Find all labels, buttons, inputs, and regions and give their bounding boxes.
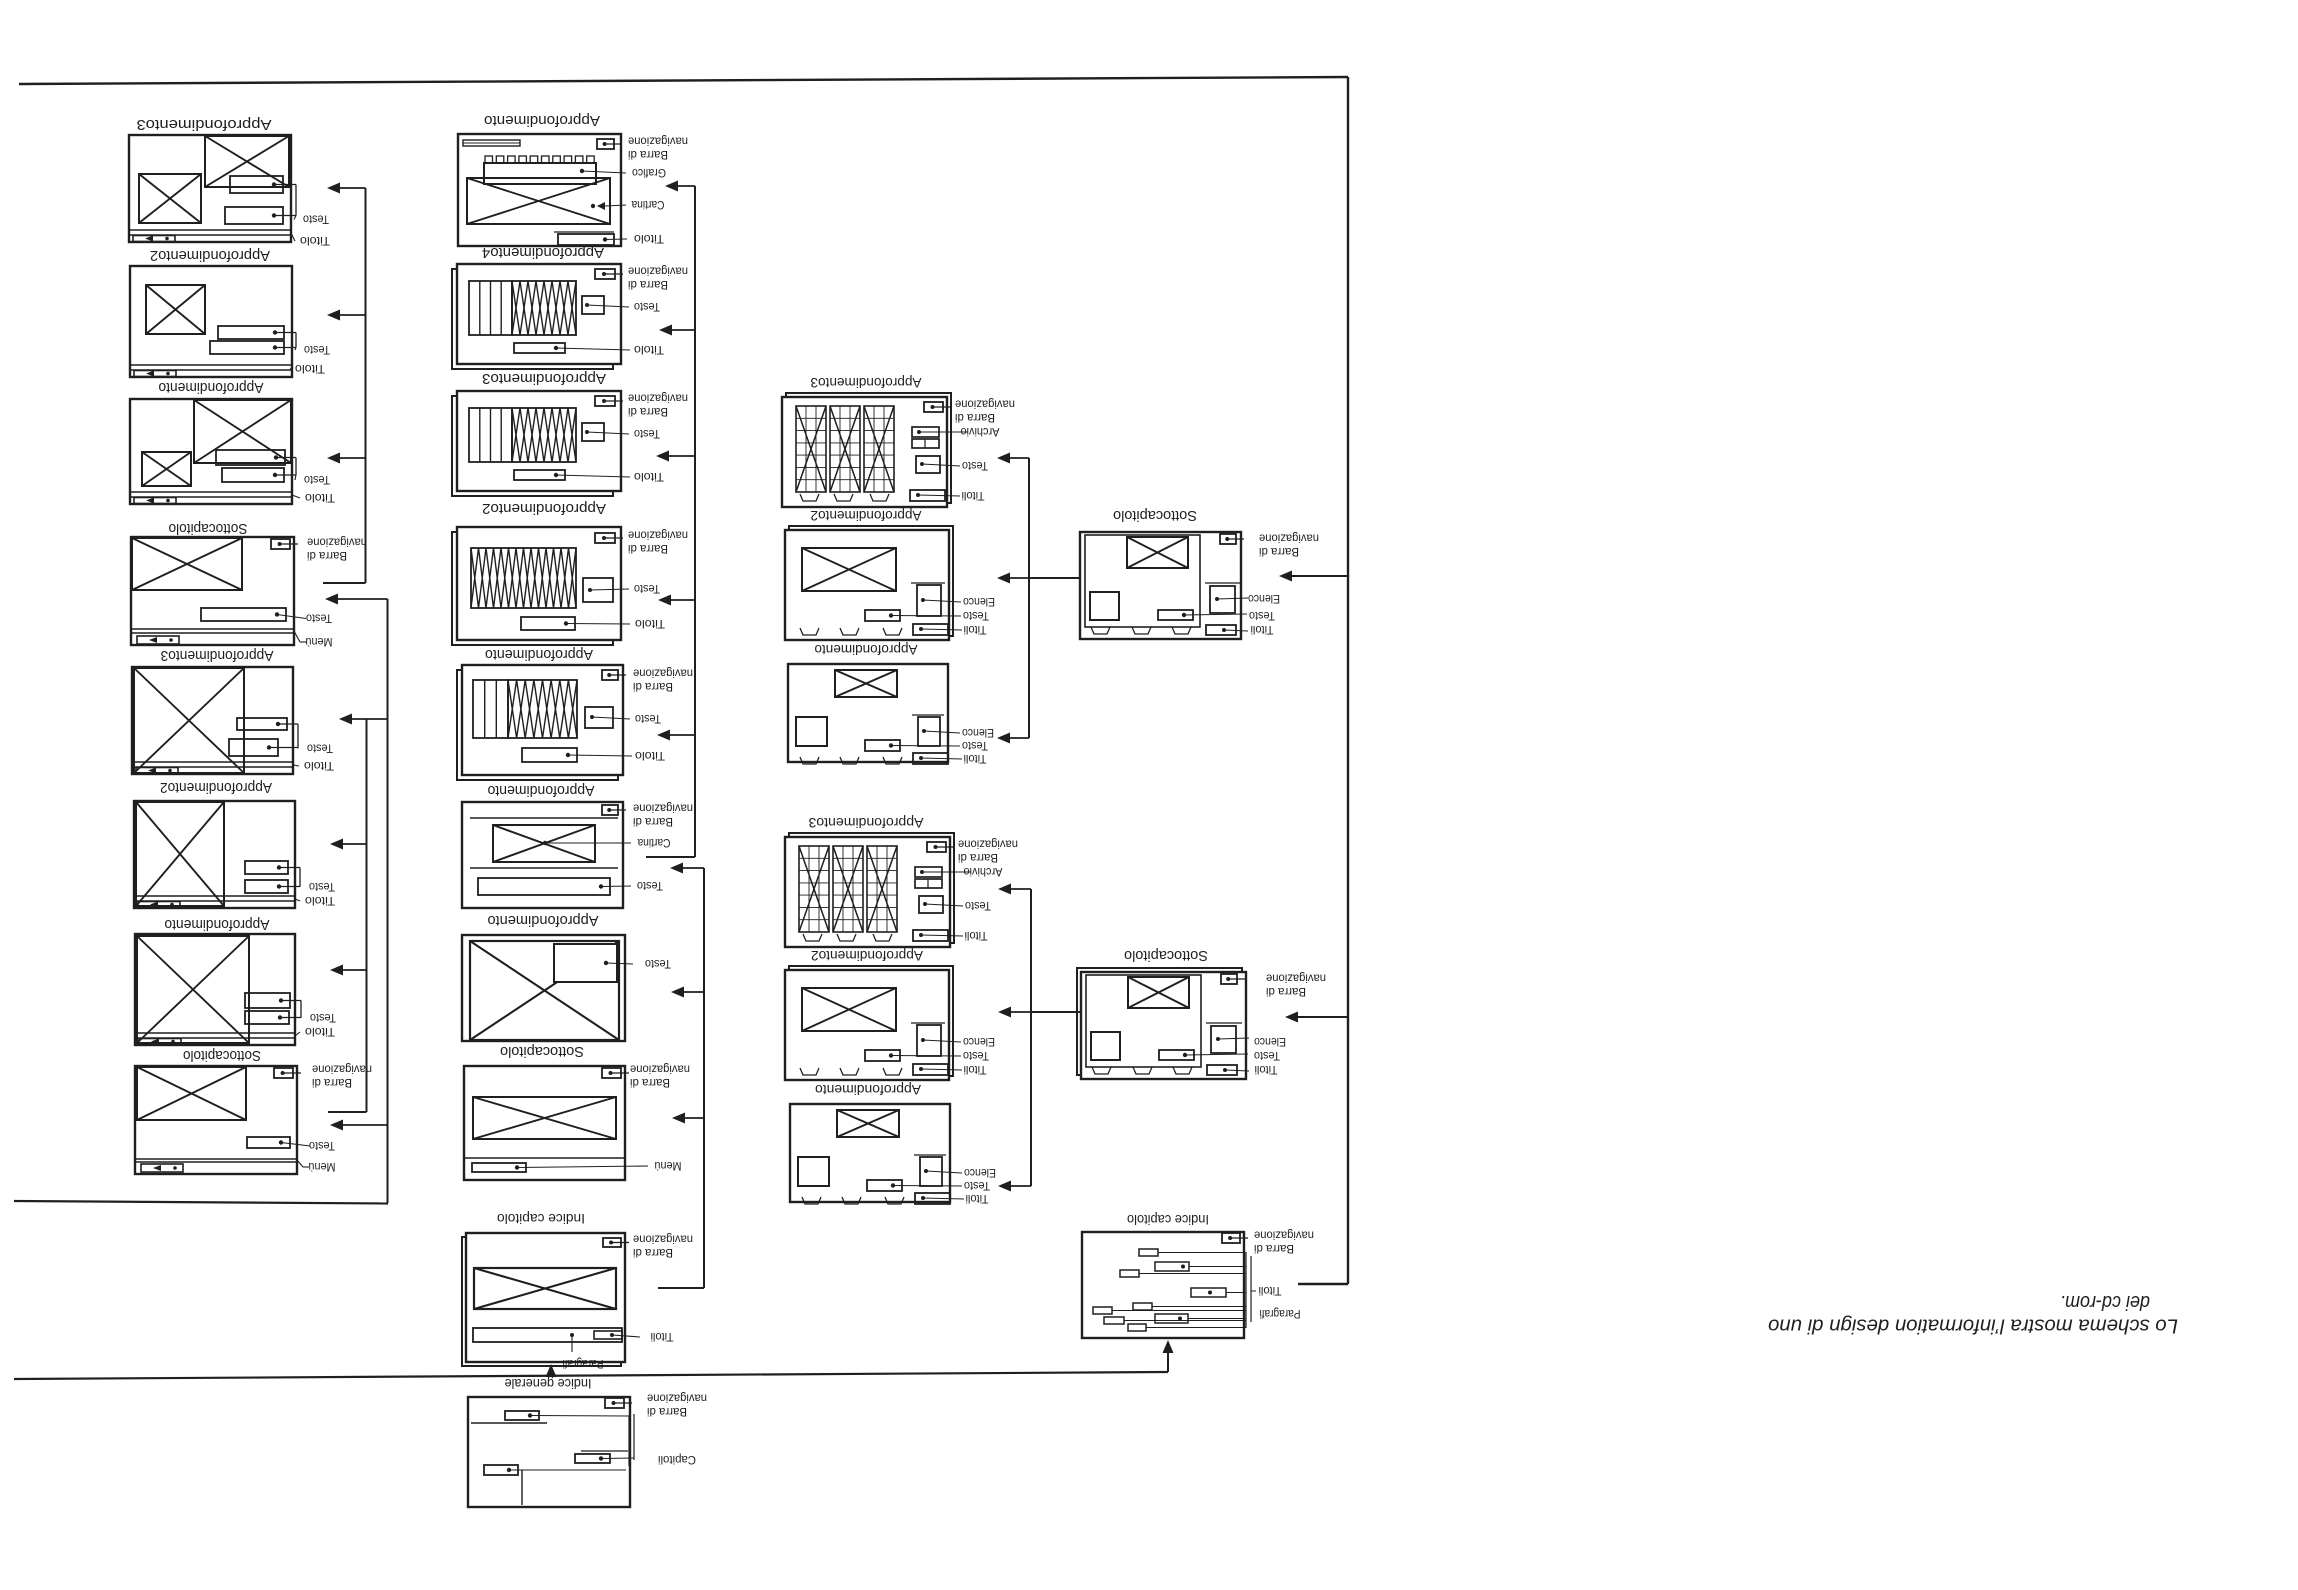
svg-text:Barra di: Barra di [633, 815, 673, 829]
svg-text:Testo: Testo [634, 300, 660, 314]
svg-text:Titolo: Titolo [305, 894, 335, 908]
svg-text:navigazione: navigazione [958, 837, 1018, 851]
box: col1 Sottocapitolo #1 [131, 520, 367, 649]
box: col3 Approfondimento #2 [790, 1082, 996, 1206]
svg-text:Approfondimento3: Approfondimento3 [161, 647, 274, 664]
arrow: bus H to G2-1 [1007, 1185, 1031, 1187]
box: col2 Indice capitolo [462, 1211, 693, 1371]
svg-text:Approfondimento: Approfondimento [815, 1082, 921, 1098]
arrow: bus F to col2 box8 [681, 1117, 704, 1119]
svg-text:Sottocapitolo: Sottocapitolo [1113, 507, 1197, 524]
svg-text:Titolo: Titolo [304, 759, 334, 773]
arrow: bus G to G1-2 [1006, 577, 1029, 579]
svg-text:Testo: Testo [304, 343, 330, 357]
svg-text:Lo schema mostra l’information: Lo schema mostra l’information design di… [1768, 1315, 2178, 1337]
svg-text:navigazione: navigazione [633, 1232, 693, 1246]
svg-text:Barra di: Barra di [628, 148, 668, 162]
svg-text:Approfondimento4: Approfondimento4 [482, 244, 604, 261]
svg-text:Titolo: Titolo [634, 232, 664, 246]
svg-text:Titolo: Titolo [635, 617, 665, 631]
svg-text:Testo: Testo [635, 712, 661, 726]
svg-text:Elenco: Elenco [1248, 592, 1280, 606]
svg-text:Approfondimento: Approfondimento [484, 112, 600, 129]
arrow: bus E to col2 box1 [674, 185, 695, 187]
svg-text:Indice capitolo: Indice capitolo [497, 1211, 585, 1227]
svg-text:navigazione: navigazione [307, 535, 367, 549]
svg-text:navigazione: navigazione [647, 1391, 707, 1405]
svg-text:navigazione: navigazione [955, 397, 1015, 411]
svg-text:Titolo: Titolo [305, 491, 335, 505]
svg-text:Approfondimento: Approfondimento [488, 782, 595, 799]
arrow: bus E to col2 box4 [667, 599, 695, 601]
box: col2 Sottocapitolo [464, 1043, 690, 1180]
svg-text:Approfondimento2: Approfondimento2 [482, 500, 606, 517]
svg-text:Menù: Menù [309, 1160, 336, 1174]
wire: top rule [19, 77, 1348, 84]
svg-text:Elenco: Elenco [963, 595, 995, 609]
svg-text:Approfondimento3: Approfondimento3 [137, 116, 272, 133]
svg-text:navigazione: navigazione [628, 391, 688, 405]
wire: bus F col2 [703, 868, 705, 1288]
svg-text:Elenco: Elenco [963, 1035, 995, 1049]
svg-text:Testo: Testo [304, 473, 330, 487]
svg-text:Testo: Testo [1254, 1049, 1280, 1063]
svg-text:Testo: Testo [962, 459, 988, 473]
svg-text:Titolo: Titolo [634, 470, 664, 484]
box: col3 Approfondimento #1 [788, 642, 994, 766]
svg-text:Titoli: Titoli [964, 1063, 987, 1077]
svg-text:Approfondimento2: Approfondimento2 [811, 948, 923, 964]
box: col2 Approfondimento (cartina) [462, 782, 693, 908]
wire: long line 2 [14, 1372, 1168, 1379]
box: col4 Sottocapitolo #2 [1077, 947, 1326, 1079]
svg-text:Elenco: Elenco [964, 1166, 996, 1180]
box: col2 Approfondimento (grafico/cartina) [458, 112, 688, 246]
svg-text:navigazione: navigazione [633, 666, 693, 680]
box: col4 Indice capitolo [1082, 1212, 1314, 1338]
svg-text:Testo: Testo [645, 957, 671, 971]
svg-text:Titoli: Titoli [965, 929, 988, 943]
svg-text:Barra di: Barra di [630, 1076, 670, 1090]
box: col3 Approfondimento2 #2 [785, 948, 995, 1080]
svg-text:Approfondimento2: Approfondimento2 [150, 247, 270, 264]
wire: right trunk vertical [1347, 77, 1349, 1284]
svg-text:navigazione: navigazione [630, 1062, 690, 1076]
svg-text:Barra di: Barra di [312, 1076, 352, 1090]
arrow: trunk into Sottocapitolo col4 #1 [1288, 575, 1348, 577]
svg-text:Paragrafi: Paragrafi [1260, 1307, 1301, 1321]
svg-text:Approfondimento: Approfondimento [488, 912, 599, 929]
svg-text:Testo: Testo [310, 1011, 336, 1025]
svg-text:Sottocapitolo: Sottocapitolo [169, 520, 248, 537]
svg-text:Testo: Testo [963, 609, 989, 623]
svg-text:Testo: Testo [307, 741, 333, 755]
arrow: bus E to col2 box3 [665, 455, 695, 457]
svg-text:Titoli: Titoli [1259, 1284, 1282, 1298]
svg-text:Approfondimento3: Approfondimento3 [808, 815, 923, 831]
box: col2 Indice generale [468, 1376, 707, 1507]
arrow: bus F to col2 box7 [680, 991, 704, 993]
svg-text:Approfondimento3: Approfondimento3 [810, 375, 921, 391]
svg-text:Testo: Testo [962, 739, 988, 753]
arrow: bus A to col1 box1 [336, 187, 366, 189]
box: col1 Approfondimento3 #2 [132, 647, 334, 774]
svg-text:Barra di: Barra di [628, 542, 668, 556]
box: col1 Sottocapitolo #2 [135, 1047, 372, 1174]
box: col3 Approfondimento3 #1 [782, 375, 1015, 507]
wire: bus B col1 [366, 719, 368, 1112]
svg-text:Titoli: Titoli [651, 1330, 674, 1344]
svg-text:Testo: Testo [964, 1179, 990, 1193]
svg-text:Barra di: Barra di [1266, 985, 1306, 999]
svg-text:Testo: Testo [963, 1049, 989, 1063]
svg-text:Sottocapitolo: Sottocapitolo [1124, 947, 1208, 964]
svg-text:Titoli: Titoli [962, 489, 985, 503]
svg-text:Barra di: Barra di [628, 278, 668, 292]
arrow: bus C to col1 box8 [339, 1124, 388, 1126]
svg-text:Menù: Menù [306, 635, 333, 649]
box: col1 Approfondimento #1 [130, 379, 335, 505]
arrow: bus B to col1 box7 [339, 969, 367, 971]
svg-text:Approfondimento: Approfondimento [165, 916, 270, 933]
svg-text:Testo: Testo [306, 611, 332, 625]
box: col2 Approfondimento (big X) [462, 912, 671, 1041]
svg-text:Paragrafi: Paragrafi [563, 1357, 604, 1371]
svg-text:Titoli: Titoli [1251, 623, 1274, 637]
svg-text:Barra di: Barra di [1254, 1242, 1294, 1256]
svg-text:navigazione: navigazione [312, 1062, 372, 1076]
svg-text:Sottocapitolo: Sottocapitolo [183, 1047, 261, 1064]
box: col2 Approfondimento3 [452, 370, 688, 496]
svg-text:Testo: Testo [309, 1139, 335, 1153]
arrow: bus F to col2 box6 [679, 867, 704, 869]
svg-text:navigazione: navigazione [1254, 1228, 1314, 1242]
wire: bus G col3 upper [1028, 458, 1030, 738]
svg-text:Testo: Testo [634, 427, 660, 441]
arrow: bus C to col1 box4 [334, 598, 388, 600]
wire: bus C col1 [387, 599, 389, 1203]
svg-text:Menù: Menù [655, 1159, 682, 1173]
svg-text:Barra di: Barra di [633, 680, 673, 694]
box: col3 Approfondimento2 #1 [785, 508, 995, 640]
svg-text:Capitoli: Capitoli [658, 1453, 696, 1467]
svg-text:navigazione: navigazione [628, 264, 688, 278]
svg-text:Archivio: Archivio [963, 865, 1002, 879]
arrow: Paragrafi up into col2 Indice capitolo [550, 1373, 552, 1376]
svg-text:Sottocapitolo: Sottocapitolo [500, 1043, 584, 1060]
svg-text:Barra di: Barra di [307, 549, 347, 563]
svg-text:Barra di: Barra di [647, 1405, 687, 1419]
wire: long line 1 [14, 1201, 388, 1204]
box: col1 Approfondimento2 #2 [134, 779, 335, 908]
svg-text:Barra di: Barra di [1259, 545, 1299, 559]
arrow: bus B to col1 box6 [339, 843, 367, 845]
svg-text:Titolo: Titolo [300, 234, 330, 248]
svg-text:Cartina: Cartina [637, 836, 670, 850]
svg-text:Indice generale: Indice generale [504, 1376, 591, 1392]
svg-text:Archivio: Archivio [960, 425, 999, 439]
svg-text:Titoli: Titoli [964, 623, 987, 637]
svg-text:navigazione: navigazione [628, 134, 688, 148]
svg-text:navigazione: navigazione [1259, 531, 1319, 545]
box: col3 Approfondimento3 #2 [785, 815, 1018, 947]
arrow: trunk into Sottocapitolo col4 #2 [1294, 1016, 1348, 1018]
svg-text:Titolo: Titolo [305, 1025, 335, 1039]
svg-text:Testo: Testo [1249, 609, 1275, 623]
arrow: bus E to col2 box2 [668, 329, 695, 331]
svg-text:Barra di: Barra di [633, 1246, 673, 1260]
wire: feed col4 box1 to bus G [1029, 577, 1080, 579]
svg-text:dei cd-rom.: dei cd-rom. [2060, 1291, 2150, 1313]
svg-text:Testo: Testo [637, 879, 663, 893]
svg-text:Testo: Testo [634, 582, 660, 596]
wire: feed col4 box2 to bus H [1031, 1011, 1081, 1013]
box: col1 Approfondimento3 #1 [129, 116, 330, 248]
svg-text:Titolo: Titolo [634, 343, 664, 357]
arrow: bus H to G2-2 [1007, 1011, 1031, 1013]
box: col1 Approfondimento #2 [135, 916, 336, 1045]
arrow: bus G to G1-3 [1006, 457, 1029, 459]
svg-text:Titoli: Titoli [1255, 1063, 1278, 1077]
box: col2 Approfondimento2 [452, 500, 688, 645]
arrow: bus C to col1 box5 [348, 718, 388, 720]
svg-text:Barra di: Barra di [628, 405, 668, 419]
svg-text:Elenco: Elenco [962, 726, 994, 740]
svg-text:Barra di: Barra di [955, 411, 995, 425]
arrow: bus E to col2 box5 [666, 734, 695, 736]
svg-text:Titoli: Titoli [966, 1192, 989, 1206]
svg-text:navigazione: navigazione [628, 528, 688, 542]
arrow: bus A to col1 box3 [336, 457, 366, 459]
svg-text:navigazione: navigazione [1266, 971, 1326, 985]
arrow: bus A to col1 box2 [336, 314, 366, 316]
arrow: up into Indice capitolo col4 [1167, 1349, 1169, 1372]
wire: bus H col3 lower [1030, 889, 1032, 1186]
wire: bus E col2 [694, 186, 696, 857]
arrow: bus G to G1-1 [1006, 737, 1029, 739]
box: col2 Approfondimento (zigzag) [457, 646, 693, 780]
box: col1 Approfondimento2 #1 [130, 247, 330, 377]
svg-text:Approfondimento2: Approfondimento2 [810, 508, 921, 524]
svg-text:Testo: Testo [965, 899, 991, 913]
svg-text:Approfondimento2: Approfondimento2 [160, 779, 272, 796]
svg-text:Approfondimento: Approfondimento [159, 379, 264, 396]
svg-text:Barra di: Barra di [958, 851, 998, 865]
wire: right trunk bottom elbow [1298, 1283, 1348, 1285]
svg-text:Testo: Testo [309, 880, 335, 894]
svg-text:Testo: Testo [303, 212, 329, 226]
svg-text:Cartina: Cartina [631, 198, 664, 212]
svg-text:Titolo: Titolo [635, 749, 665, 763]
svg-text:Titoli: Titoli [964, 752, 987, 766]
svg-text:Approfondimento3: Approfondimento3 [482, 370, 606, 387]
svg-text:Titolo: Titolo [295, 362, 325, 376]
box: col4 Sottocapitolo #1 [1080, 507, 1319, 639]
svg-text:Approfondimento: Approfondimento [485, 646, 593, 663]
box: col2 Approfondimento4 [452, 244, 688, 369]
svg-text:Approfondimento: Approfondimento [814, 642, 917, 658]
arrow: bus H to G2-3 [1007, 888, 1031, 890]
svg-text:Indice capitolo: Indice capitolo [1127, 1212, 1209, 1228]
svg-text:Grafico: Grafico [632, 166, 666, 180]
svg-text:navigazione: navigazione [633, 801, 693, 815]
wire: bus A col1 [365, 188, 367, 583]
svg-text:Elenco: Elenco [1254, 1035, 1286, 1049]
